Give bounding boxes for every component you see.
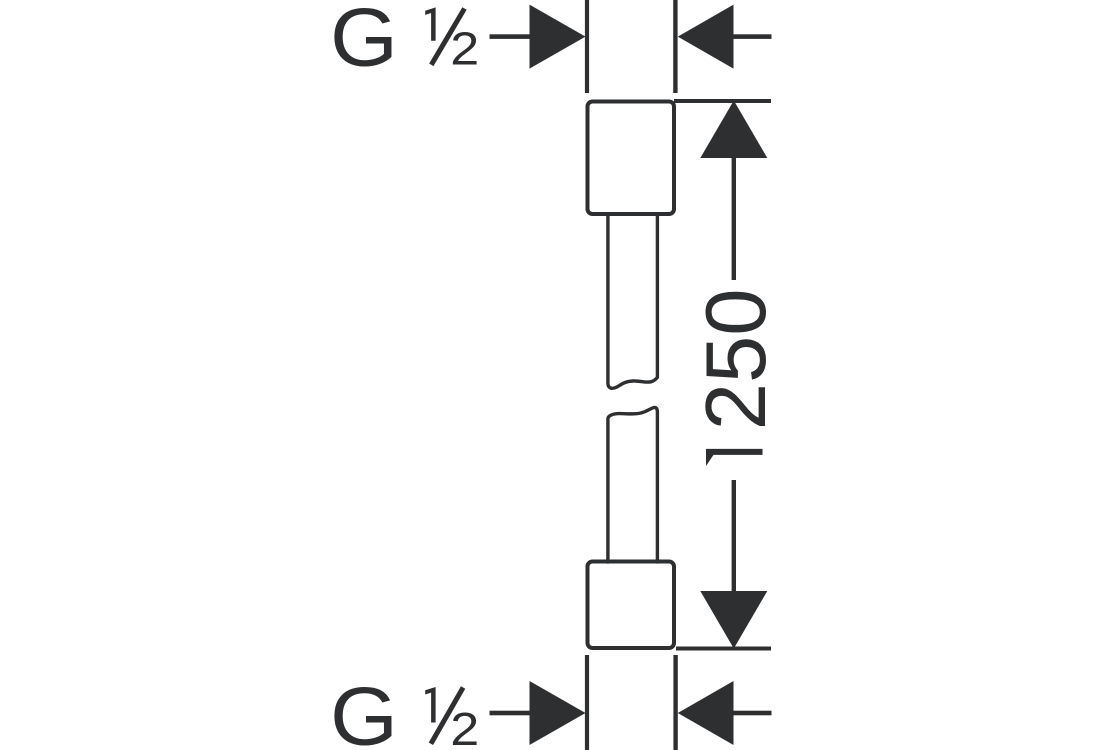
svg-text:250: 250	[689, 288, 784, 430]
hose upper segment with break curve	[608, 215, 658, 388]
fraction numerator 1 (bottom)	[425, 687, 435, 723]
fraction numerator 1 (top)	[425, 7, 435, 40]
top dimension arrowhead pointing left	[678, 5, 734, 69]
bottom dimension tail line left	[490, 711, 533, 716]
svg-text:2: 2	[450, 703, 479, 750]
top dimension tail line right	[733, 34, 772, 39]
fraction slash (bottom)	[431, 688, 463, 744]
svg-text:2: 2	[450, 23, 479, 75]
length arrowhead down	[700, 591, 767, 649]
top extension line right	[673, 0, 677, 93]
hose lower segment with break curve	[608, 407, 658, 562]
bottom dimension arrowhead pointing left	[678, 681, 734, 745]
top dimension arrowhead pointing right	[530, 5, 586, 69]
length arrowhead up	[700, 101, 767, 159]
bottom hose nut outline	[588, 562, 675, 649]
top hose nut outline	[588, 102, 675, 215]
bottom dimension arrowhead pointing right	[530, 681, 586, 745]
svg-text:G: G	[330, 671, 398, 750]
fraction slash (top)	[431, 9, 464, 65]
svg-text:G: G	[330, 0, 398, 84]
length extension line bottom	[676, 647, 771, 651]
top extension line left	[585, 0, 589, 93]
top dimension tail line left	[490, 34, 533, 39]
length dimension line upper segment	[732, 156, 736, 280]
bottom extension line right	[673, 655, 677, 750]
length dimension line lower segment	[732, 480, 736, 594]
length label 1250 digit 1	[706, 449, 763, 466]
length extension line top	[674, 99, 771, 103]
bottom dimension tail line right	[733, 711, 772, 716]
bottom extension line left	[585, 655, 589, 750]
